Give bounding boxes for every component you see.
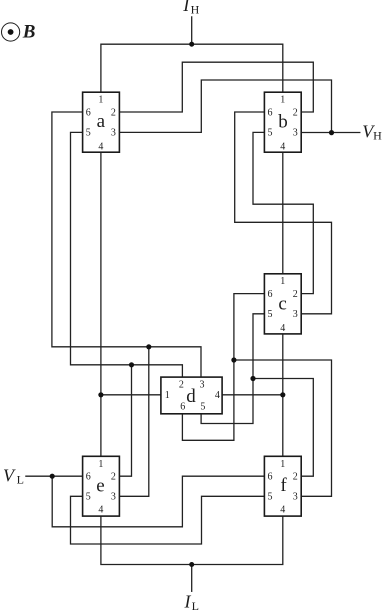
svg-text:B: B [22, 22, 36, 43]
svg-text:L: L [17, 472, 24, 486]
svg-text:6: 6 [268, 107, 273, 118]
svg-text:5: 5 [200, 402, 205, 413]
svg-text:3: 3 [200, 380, 205, 391]
svg-text:2: 2 [179, 380, 184, 391]
svg-text:4: 4 [280, 141, 285, 152]
svg-text:3: 3 [293, 309, 298, 320]
svg-text:c: c [278, 294, 286, 315]
svg-text:d: d [186, 386, 196, 407]
svg-text:1: 1 [165, 390, 170, 401]
svg-text:1: 1 [98, 459, 103, 470]
svg-text:4: 4 [280, 504, 285, 515]
svg-text:4: 4 [215, 390, 220, 401]
svg-text:2: 2 [293, 472, 298, 483]
svg-text:4: 4 [98, 141, 103, 152]
svg-text:f: f [280, 475, 287, 496]
svg-text:3: 3 [111, 492, 116, 503]
svg-text:6: 6 [180, 402, 185, 413]
svg-text:5: 5 [86, 128, 91, 139]
svg-text:2: 2 [111, 107, 116, 118]
svg-text:1: 1 [280, 276, 285, 287]
svg-text:4: 4 [280, 323, 285, 334]
svg-text:a: a [97, 111, 106, 132]
svg-text:H: H [191, 3, 200, 17]
svg-text:5: 5 [86, 492, 91, 503]
svg-text:5: 5 [268, 309, 273, 320]
svg-text:H: H [373, 128, 382, 142]
svg-text:3: 3 [293, 492, 298, 503]
svg-text:b: b [278, 112, 288, 133]
svg-text:3: 3 [111, 128, 116, 139]
svg-text:2: 2 [293, 289, 298, 300]
svg-text:1: 1 [280, 459, 285, 470]
svg-text:2: 2 [293, 107, 298, 118]
svg-text:L: L [192, 599, 199, 610]
svg-text:1: 1 [280, 95, 285, 106]
svg-text:6: 6 [268, 289, 273, 300]
svg-text:5: 5 [268, 492, 273, 503]
svg-text:3: 3 [293, 128, 298, 139]
svg-text:5: 5 [268, 128, 273, 139]
svg-text:4: 4 [98, 504, 103, 515]
svg-text:e: e [96, 475, 104, 496]
svg-text:V: V [3, 465, 16, 485]
svg-text:I: I [184, 591, 192, 610]
svg-text:1: 1 [98, 95, 103, 106]
svg-text:6: 6 [86, 107, 91, 118]
svg-text:2: 2 [111, 472, 116, 483]
svg-text:I: I [182, 0, 190, 15]
svg-text:6: 6 [268, 472, 273, 483]
svg-text:6: 6 [86, 472, 91, 483]
